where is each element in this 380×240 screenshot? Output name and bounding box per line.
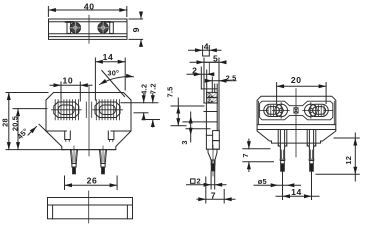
rear view right pin sleeve	[308, 130, 310, 160]
top view left pin circle	[70, 23, 80, 33]
front view left slot inner stadium	[58, 105, 74, 115]
dimension 5 (middle)	[190, 61, 224, 63]
dimension 2 (middle)	[187, 73, 214, 75]
dimension 20 line	[277, 85, 327, 87]
front view left tab	[65, 131, 71, 140]
front view slot divider lines	[86, 102, 91, 118]
dimension 12 line	[354, 133, 356, 181]
svg-text:12: 12	[344, 156, 353, 165]
dimension 20.5 line	[17, 109, 19, 150]
rear view body outline	[257, 96, 336, 143]
dimension 10 ext lines	[60, 82, 62, 101]
rear view left slot midline tail	[260, 109, 269, 111]
rear view recess contour	[260, 101, 333, 120]
side view step boxes	[213, 131, 220, 141]
rear view center connector	[294, 108, 298, 113]
dimension 26 line	[65, 184, 118, 186]
rear view left pin collar	[280, 159, 285, 160]
front view left step line	[46, 130, 67, 132]
bar outline	[48, 198, 133, 219]
dimension 7 (middle) line	[197, 198, 235, 200]
front view centerline	[88, 86, 90, 156]
dimension 2.5 (middle)	[207, 80, 237, 82]
front view 30deg chamfer diagonal	[102, 71, 125, 97]
dimension 10 line	[50, 84, 92, 86]
rear view left slot inner stadium	[266, 107, 279, 115]
dimension 9 line + outside arrows	[140, 13, 142, 20]
rear view right pin circle	[305, 104, 318, 117]
45 degree leader line	[39, 124, 47, 132]
svg-text:30°: 30°	[107, 68, 119, 77]
rear view skirt line 2	[257, 129, 336, 131]
side view pin tip	[211, 160, 215, 165]
side view step2	[200, 67, 202, 89]
svg-text:2: 2	[197, 176, 201, 185]
dimension 4.2 line (outside arrows)	[143, 95, 145, 103]
side view pin centerline	[212, 145, 214, 176]
front view right slot hatch	[96, 100, 119, 120]
front view right tab	[108, 131, 114, 140]
rear view left slot crosshair	[273, 103, 290, 119]
dimension 4.2 ref lines	[121, 102, 158, 104]
dimension 7.5 line	[177, 98, 179, 126]
top view right bold seg	[102, 21, 110, 23]
dimension 7.2 ref line	[142, 119, 160, 121]
side view hatch cells	[207, 92, 218, 97]
side view shoulder	[204, 61, 219, 63]
dimension 28 line	[8, 93, 10, 150]
dimension 14 line	[95, 61, 125, 63]
svg-text:10: 10	[63, 76, 74, 86]
dimension 12 ref lines	[334, 137, 359, 139]
bar inner top line	[48, 204, 133, 206]
dimension 26 ext lines	[64, 176, 66, 190]
front view right step line	[111, 130, 131, 132]
label dia2	[191, 179, 195, 183]
bar inner right line	[126, 205, 128, 219]
label tiny 2 upper	[208, 93, 214, 99]
dimension 40 line	[48, 9, 126, 11]
svg-text:7.5: 7.5	[166, 87, 175, 98]
svg-text:7: 7	[211, 190, 216, 200]
side view pin taper	[208, 149, 217, 160]
30 degree arc leader	[100, 77, 134, 85]
dimension 20.5 ext line	[13, 108, 47, 110]
front view left slot midline	[52, 109, 82, 111]
dimension dia5 line	[254, 184, 301, 186]
top view inner horizontal line lower1	[49, 33, 128, 35]
svg-text:2: 2	[192, 66, 197, 76]
svg-text:4: 4	[204, 42, 209, 52]
top view right pin clip	[110, 22, 114, 33]
dimension 7 (middle) ext lines	[205, 177, 207, 203]
front view right slot inner stadium	[99, 105, 115, 115]
dimension 14 (rear) ext lines	[282, 172, 284, 200]
front view left pin	[71, 150, 78, 164]
dimension 14 (rear) line	[276, 195, 319, 197]
top view centerline	[88, 15, 90, 43]
svg-text:28: 28	[0, 118, 9, 127]
rear view right slot hatch	[316, 105, 324, 115]
svg-text:20: 20	[291, 75, 302, 85]
rear view left slot stadium	[264, 104, 283, 116]
dimension 7 (rear) ref lines	[243, 148, 270, 150]
top view right pin circle	[98, 23, 108, 33]
svg-text:7: 7	[241, 153, 250, 157]
rear view left pin pedestal	[277, 130, 279, 147]
dimension 28 ext lines	[6, 92, 48, 94]
svg-text:2.5: 2.5	[226, 73, 237, 82]
dimension dia2 line	[187, 184, 227, 186]
svg-text:26: 26	[87, 175, 98, 185]
bar centerline	[88, 191, 90, 223]
rear view right pin collar	[309, 159, 314, 160]
rear view right slot crosshair	[303, 103, 320, 119]
dimension 4 (middle)	[189, 49, 222, 51]
rear view left pin sleeve	[279, 130, 281, 160]
dimension 20 ext lines	[276, 83, 278, 104]
dimension 9 ext lines	[129, 18, 143, 20]
dimension 40 ext lines	[47, 7, 49, 17]
label tiny 2 lower	[208, 98, 214, 104]
svg-text:5: 5	[213, 54, 218, 64]
rear view right pin pedestal	[306, 130, 308, 147]
front view right pin	[100, 150, 107, 164]
top view inner horizontal line upper	[49, 21, 128, 23]
rear view right slot stadium	[309, 104, 328, 116]
svg-text:14: 14	[103, 52, 114, 62]
top view outline	[49, 19, 128, 39]
svg-text:20.5: 20.5	[10, 116, 19, 131]
rear view skirt line 1	[257, 124, 336, 126]
svg-text:40: 40	[84, 1, 95, 11]
rear view right pin tip	[310, 161, 314, 164]
dimension 14 ext lines	[94, 58, 96, 100]
front view right slot midline	[93, 109, 123, 111]
svg-text:3: 3	[180, 140, 189, 144]
dimension 3 line (outside arrows)	[190, 112, 192, 129]
rear view centerline	[295, 89, 297, 158]
rear view right slot midline tail	[324, 109, 333, 111]
top view left pin clip	[67, 22, 71, 33]
side view cap top	[203, 55, 210, 57]
rear view left pin circle	[275, 104, 288, 117]
rear view inner edge lines	[259, 101, 335, 124]
svg-text:14: 14	[291, 187, 302, 197]
dimension 7 (rear) line outside arrows	[248, 139, 250, 149]
svg-text:7.2: 7.2	[149, 83, 158, 94]
front view bottom edge	[62, 149, 116, 151]
front view right slot octagon	[95, 102, 120, 118]
svg-text:4.2: 4.2	[139, 84, 148, 95]
svg-text:9: 9	[131, 27, 141, 32]
dimension 7.2 line (outside arrows)	[152, 94, 154, 103]
top view inner horizontal line lower2	[49, 36, 128, 38]
dimension 7.5 ref lines	[171, 105, 204, 107]
rear view left pin tip	[281, 161, 285, 164]
front view left slot octagon	[54, 102, 79, 118]
bar inner left line	[52, 205, 54, 219]
dimension 3 ref lines	[183, 121, 217, 123]
side view lower stem	[205, 103, 207, 149]
front view body outline	[46, 93, 131, 150]
svg-text:ø5: ø5	[258, 177, 267, 186]
top view left bold seg	[66, 21, 74, 23]
side view mid horizontals	[201, 88, 217, 90]
svg-text:2: 2	[208, 98, 211, 104]
rear view right slot inner stadium	[313, 107, 326, 115]
front view left slot hatch	[55, 100, 78, 120]
rear view left slot hatch	[268, 105, 276, 115]
